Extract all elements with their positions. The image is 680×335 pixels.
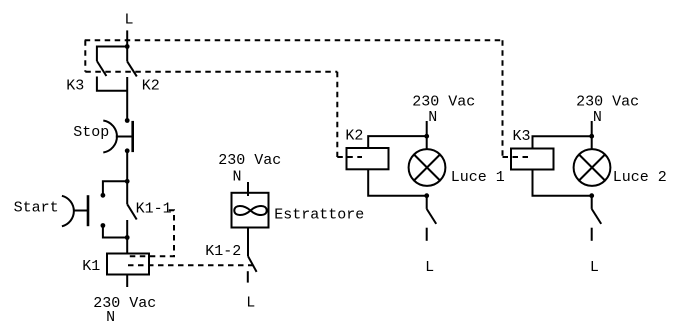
svg-text:Stop: Stop — [73, 124, 109, 141]
wire below contact K3 rejoining main rail — [97, 77, 127, 91]
wire below coil K1 — [126, 275, 128, 288]
contact K3 (NO contact in parallel branch) blade — [97, 61, 107, 76]
svg-text:K1-1: K1-1 — [136, 200, 172, 217]
pushbutton Stop plunger link — [116, 136, 133, 138]
node junction dot lamp2 top — [589, 134, 594, 139]
svg-text:N: N — [106, 309, 115, 326]
dashed mechanical link K1-1 contact to coil K1 — [127, 210, 174, 256]
node junction dot lamp1 bottom — [424, 193, 429, 198]
switch S1 blade (lamp 1 return) — [427, 209, 437, 224]
node junction dot above Start/K1-1 parallel — [125, 179, 130, 184]
lamp Luce 1 bulb circle — [409, 149, 446, 186]
wire Start branch lower — [103, 226, 127, 238]
motor M1 fan lemniscate symbol — [234, 206, 266, 215]
svg-text:K3: K3 — [66, 78, 84, 95]
node junction dot below Start/K1-1 parallel — [125, 235, 130, 240]
wire coil K3 branch top — [533, 136, 592, 148]
contact K1-1 (NO holding contact) upper stub — [126, 181, 128, 204]
wire extractor to contact K1-2 — [247, 228, 249, 257]
pushbutton Start terminal dots — [101, 193, 106, 198]
svg-text:Estrattore: Estrattore — [274, 207, 364, 224]
node A junction dot at top rail split — [125, 44, 130, 49]
coil K3 box — [511, 149, 554, 170]
svg-text:K3: K3 — [513, 128, 531, 145]
motor M1 extractor fan box — [232, 193, 269, 228]
contact K1-2 lower stub — [247, 271, 249, 282]
wire main rail from L to contact K2 — [126, 30, 128, 61]
wire coil K2 branch bottom — [368, 169, 427, 195]
contact K1-2 blade — [248, 256, 257, 272]
wire lamp2 supply drop — [591, 121, 593, 149]
wire left branch to contact K3 — [97, 47, 127, 62]
node junction dot lamp1 top — [424, 134, 429, 139]
coil K1 box — [107, 254, 149, 275]
contact K1-1 blade — [127, 204, 137, 219]
svg-text:L: L — [590, 259, 599, 276]
svg-text:L: L — [246, 295, 255, 312]
switch S2 lower stub — [591, 228, 593, 241]
switch S1 lower stub — [426, 228, 428, 241]
svg-text:N: N — [593, 109, 602, 126]
lamp Luce 1 cross — [414, 155, 440, 181]
svg-text:230 Vac: 230 Vac — [576, 93, 639, 110]
wire Stop to Start junction — [126, 151, 128, 182]
wire main rail below contact K2 — [126, 77, 128, 121]
svg-text:230 Vac: 230 Vac — [412, 93, 475, 110]
dashed mechanical link K3 contact to coil K3 — [85, 39, 503, 41]
svg-text:Luce 1: Luce 1 — [451, 169, 505, 186]
pushbutton Start plunger link — [73, 210, 88, 212]
svg-text:230 Vac: 230 Vac — [93, 295, 156, 312]
switch S2 blade (lamp 2 return) — [592, 209, 602, 224]
svg-text:L: L — [425, 259, 434, 276]
svg-text:N: N — [233, 169, 242, 186]
wire lamp2 to switch — [591, 196, 593, 209]
coil K2 box — [347, 148, 389, 169]
svg-text:230 Vac: 230 Vac — [218, 152, 281, 169]
wire lamp1 supply drop — [426, 121, 428, 149]
svg-text:K1-2: K1-2 — [205, 243, 241, 260]
dashed link left drop — [84, 40, 86, 71]
contact K2 (NO contact in main rail) blade — [127, 61, 137, 76]
lamp Luce 2 cross — [579, 155, 605, 181]
svg-text:K1: K1 — [82, 258, 100, 275]
svg-text:K2: K2 — [345, 128, 363, 145]
svg-text:N: N — [428, 109, 437, 126]
wire below contact K1-1 to coil K1 — [126, 220, 128, 254]
pushbutton Start moving bar — [87, 195, 90, 226]
svg-text:L: L — [125, 12, 134, 29]
wire Start branch upper — [103, 181, 127, 195]
wire coil K3 branch bottom — [533, 170, 592, 196]
node junction dot lamp2 bottom — [589, 193, 594, 198]
dashed mechanical link K2 contact to coil K2 — [85, 71, 337, 73]
wire coil K2 branch top — [368, 136, 427, 148]
svg-text:Start: Start — [14, 199, 59, 216]
svg-text:K2: K2 — [142, 78, 160, 95]
pushbutton Stop terminal dots — [125, 118, 130, 123]
pushbutton Stop moving bar — [131, 121, 134, 152]
pushbutton Start actuator arc — [62, 196, 74, 227]
pushbutton Stop (NC) actuator arc — [103, 121, 117, 153]
svg-text:Luce 2: Luce 2 — [613, 169, 667, 186]
lamp Luce 2 bulb circle — [574, 149, 611, 186]
wire lamp1 to switch — [426, 196, 428, 209]
dashed mechanical link coil K1 to contact K1-2 — [128, 264, 254, 266]
wire extractor supply — [247, 182, 249, 196]
